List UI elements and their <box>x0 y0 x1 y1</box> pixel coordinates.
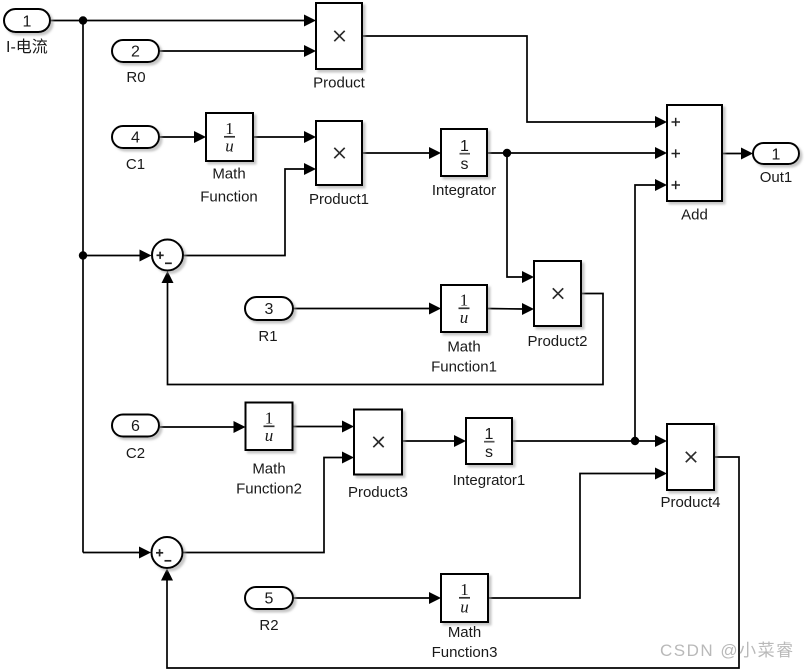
svg-text:C1: C1 <box>126 156 145 173</box>
svg-text:C2: C2 <box>126 445 145 462</box>
block Product4 <box>667 424 714 490</box>
svg-text:1: 1 <box>772 147 781 164</box>
wire port2 to Product input 2 <box>159 45 316 57</box>
sum block Sum1 <box>152 240 183 271</box>
wire junction down to Product2 input 1 <box>507 153 534 283</box>
svg-text:Integrator: Integrator <box>432 182 496 199</box>
svg-text:Product2: Product2 <box>527 333 587 350</box>
wire Math Function3 output to Product4 input 2 <box>488 468 667 599</box>
wire Product2 output feedback to Sum1 bottom input <box>162 271 604 385</box>
svg-text:1: 1 <box>265 409 274 428</box>
block Integrator1 <box>466 418 512 464</box>
svg-text:R2: R2 <box>259 617 278 634</box>
wire branch to Sum1 left input <box>83 250 152 262</box>
junction node integrator1 output <box>631 437 639 445</box>
svg-text:R1: R1 <box>258 328 277 345</box>
svg-text:Math: Math <box>447 339 480 356</box>
svg-text:1: 1 <box>460 580 469 599</box>
wire Integrator1 output to Product4 input 1 <box>512 435 667 447</box>
wire port4 to Math Function input <box>159 131 206 143</box>
inport 5 <box>245 587 293 609</box>
block Math Function1 <box>441 285 487 332</box>
wire port1 to Product input 1 <box>50 15 316 27</box>
arrowhead for Add input1 <box>655 116 667 128</box>
outport Out1 <box>753 143 799 164</box>
svg-text:1: 1 <box>460 291 469 310</box>
wire Math Function2 output to Product3 input 1 <box>293 421 355 433</box>
inport 1 <box>4 9 50 32</box>
junction node at x83 sum1 branch <box>79 251 87 259</box>
wire Product3 output to Integrator1 <box>402 435 466 447</box>
svg-text:CSDN @小菜睿: CSDN @小菜睿 <box>660 641 795 660</box>
svg-text:Product: Product <box>313 75 366 92</box>
svg-text:u: u <box>225 137 234 156</box>
block Integrator <box>441 129 487 176</box>
wire Add output to Out1 <box>722 148 753 160</box>
svg-text:1: 1 <box>225 119 234 138</box>
wire Product1 output to Integrator <box>362 147 441 159</box>
wire junction down left rail <box>82 21 84 553</box>
svg-text:Product1: Product1 <box>309 191 369 208</box>
svg-text:Product4: Product4 <box>660 494 720 511</box>
wire port3 to Math Function1 <box>293 303 441 315</box>
svg-text:s: s <box>485 444 493 461</box>
svg-text:Function3: Function3 <box>432 644 498 661</box>
svg-text:Add: Add <box>681 207 708 224</box>
block Math Function <box>206 113 253 161</box>
wire Product4 output feedback to Sum2 bottom input <box>161 457 739 668</box>
svg-text:2: 2 <box>131 44 140 61</box>
svg-text:6: 6 <box>131 418 140 435</box>
svg-text:Math: Math <box>212 166 245 183</box>
wire left rail to Sum2 left input <box>83 547 151 559</box>
block Math Function3 <box>441 574 488 622</box>
svg-text:u: u <box>460 308 469 327</box>
svg-text:I-电流: I-电流 <box>6 38 48 56</box>
wire Integrator output to Add input 2 <box>487 147 667 159</box>
wire Sum2 output to Product3 input 2 <box>183 452 354 553</box>
inport 4 <box>112 126 159 148</box>
block Product <box>316 3 362 69</box>
block Add <box>667 105 722 201</box>
svg-text:Math: Math <box>448 624 481 641</box>
svg-text:Product3: Product3 <box>348 484 408 501</box>
svg-text:u: u <box>460 598 469 617</box>
svg-text:u: u <box>265 426 274 445</box>
svg-text:1: 1 <box>23 14 32 31</box>
sum block Sum2 <box>152 537 183 568</box>
wire vertical to Add input 3 <box>635 179 667 441</box>
wire port5 to Math Function3 <box>293 592 441 604</box>
wire Sum1 output to Product1 input 2 <box>184 163 317 256</box>
block Math Function2 <box>246 403 293 451</box>
svg-text:Function: Function <box>200 189 258 206</box>
block Product2 <box>534 261 581 326</box>
wire Product output to Add input 1 <box>362 36 656 122</box>
svg-text:1: 1 <box>460 138 469 155</box>
svg-text:Out1: Out1 <box>760 169 793 186</box>
svg-text:Function2: Function2 <box>236 481 302 498</box>
wire port6 to Math Function2 <box>159 421 246 433</box>
svg-text:R0: R0 <box>126 69 145 86</box>
junction node at x83 top <box>79 16 87 24</box>
block Product3 <box>354 410 402 475</box>
svg-text:Math: Math <box>252 461 285 478</box>
wire Math Function1 output to Product2 input 2 <box>487 303 534 315</box>
block Product1 <box>316 121 362 185</box>
svg-text:4: 4 <box>131 130 140 147</box>
inport 6 <box>112 415 159 437</box>
svg-text:5: 5 <box>265 591 274 608</box>
wire Math Function output to Product1 input 1 <box>253 131 316 143</box>
svg-text:Function1: Function1 <box>431 359 497 376</box>
junction node integrator output <box>503 149 511 157</box>
inport 3 <box>245 297 293 320</box>
svg-text:3: 3 <box>265 301 274 318</box>
svg-text:s: s <box>461 156 469 173</box>
svg-text:1: 1 <box>485 426 494 443</box>
inport 2 <box>112 40 159 62</box>
svg-text:Integrator1: Integrator1 <box>453 472 526 489</box>
